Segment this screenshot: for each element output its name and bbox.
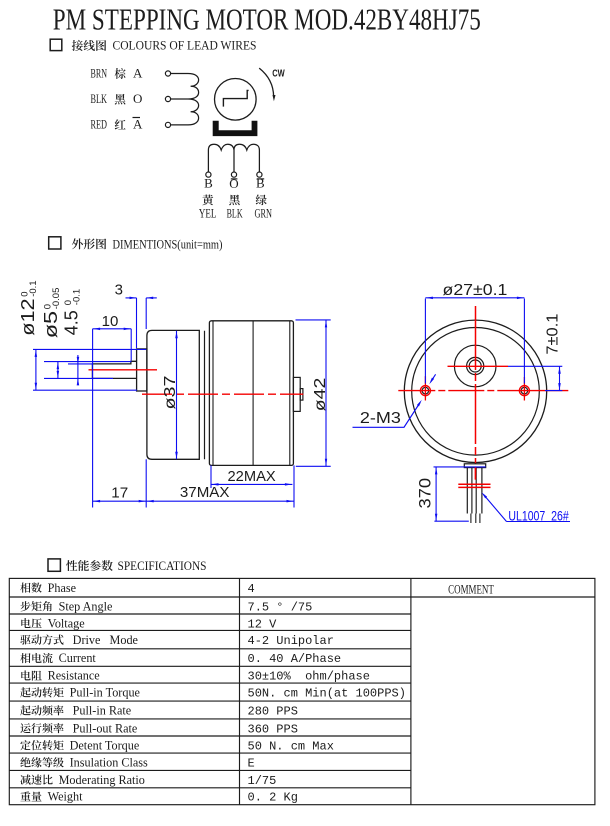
svg-text:SPECIFICATIONS: SPECIFICATIONS bbox=[118, 558, 207, 573]
dim 10: long extension line left (shared with 17) bbox=[92, 329, 94, 508]
terminal Abar bbox=[165, 122, 170, 127]
label lead Abar RED bbox=[91, 117, 144, 132]
label lead A BRN bbox=[91, 66, 144, 81]
section checkbox 2 bbox=[49, 237, 61, 249]
svg-text:50N. cm Min(at 100PPS): 50N. cm Min(at 100PPS) bbox=[248, 687, 406, 701]
dim phi27: extension lines bbox=[425, 299, 524, 384]
svg-text:ø5: ø5 bbox=[41, 311, 61, 338]
table row: current bbox=[20, 651, 341, 666]
dim 4.5: dimension line with outside arrows bbox=[77, 355, 80, 385]
dim 37MAX: extension lines bbox=[146, 459, 294, 507]
svg-text:30±10% ohm/phase: 30±10% ohm/phase bbox=[248, 670, 370, 684]
svg-text:360 PPS: 360 PPS bbox=[248, 722, 298, 736]
label lead O BLK bbox=[91, 91, 143, 106]
dim 17: dimension line with arrows bbox=[93, 500, 147, 503]
coil winding phase B (horizontal) bbox=[208, 144, 259, 172]
rotor step symbol bbox=[223, 90, 248, 106]
svg-text:Pull-out Rate: Pull-out Rate bbox=[70, 721, 138, 735]
svg-text:E: E bbox=[248, 757, 255, 771]
dim phi5: dimension line with arrows bbox=[57, 362, 60, 379]
table row: detent torque bbox=[20, 738, 334, 753]
side view: front boss bbox=[137, 349, 147, 391]
side view: gearbox body (dia 37) bbox=[147, 330, 199, 459]
section title: wiring diagram bbox=[72, 38, 257, 53]
table row: phase bbox=[20, 581, 254, 596]
front view: left mounting hole bbox=[422, 387, 429, 394]
centerline: right hole vertical (red) bbox=[523, 377, 525, 401]
dim phi42: dimension line with arrows bbox=[325, 320, 327, 466]
svg-text:4.5: 4.5 bbox=[62, 310, 82, 335]
svg-text:GRN: GRN bbox=[255, 205, 273, 220]
leader 2-M3 bbox=[353, 374, 436, 427]
centerline: holes horizontal (red dashed) bbox=[398, 390, 568, 392]
svg-text:B: B bbox=[204, 175, 213, 190]
svg-text:2-M3: 2-M3 bbox=[360, 410, 401, 427]
dim 4.5: label with tolerance bbox=[62, 289, 83, 335]
dim 22MAX: extension line bbox=[210, 465, 212, 488]
side view: terminal tab bbox=[293, 377, 300, 411]
dim phi27: dimension line with arrows bbox=[425, 297, 524, 300]
terminal B bbox=[206, 172, 211, 177]
svg-text:RED: RED bbox=[91, 117, 108, 132]
side view: body rear seam bbox=[289, 321, 291, 466]
dim 370: extension lines bbox=[434, 467, 486, 521]
front view: inner circle (dia 37) bbox=[412, 328, 540, 456]
side view: body front seam bbox=[212, 321, 214, 466]
svg-text:BLK: BLK bbox=[227, 205, 243, 220]
svg-text:A: A bbox=[133, 117, 143, 132]
svg-text:BRN: BRN bbox=[91, 66, 108, 81]
CW rotation arrow bbox=[259, 68, 275, 101]
svg-text:4: 4 bbox=[248, 582, 255, 596]
svg-text:ø12: ø12 bbox=[18, 298, 38, 335]
svg-text:Current: Current bbox=[59, 651, 97, 665]
svg-text:A: A bbox=[133, 66, 143, 81]
front view: shaft inner circle bbox=[469, 360, 481, 372]
table row: weight bbox=[20, 790, 297, 805]
front view: right mounting hole bbox=[521, 387, 528, 394]
terminal O2 bbox=[231, 172, 236, 177]
svg-text:7±0.1: 7±0.1 bbox=[545, 313, 562, 354]
dim 7: extension lines bbox=[508, 366, 562, 390]
svg-text:22MAX: 22MAX bbox=[228, 468, 276, 485]
table row: pull-in torque bbox=[20, 686, 406, 701]
svg-text:Weight: Weight bbox=[48, 790, 84, 804]
lead wire ends bbox=[471, 514, 480, 524]
label O bbox=[229, 176, 238, 191]
svg-text:-0.1: -0.1 bbox=[72, 289, 83, 305]
svg-text:ø27±0.1: ø27±0.1 bbox=[443, 282, 508, 299]
svg-text:280 PPS: 280 PPS bbox=[248, 705, 298, 719]
table row: resistance bbox=[21, 669, 370, 684]
side view: motor body (dia 42) bbox=[209, 321, 293, 466]
lead wires cap bbox=[464, 464, 485, 468]
table row: pull-in rate bbox=[20, 704, 298, 719]
centerline: shaft horizontal (red) bbox=[448, 365, 509, 367]
svg-text:0. 2 Kg: 0. 2 Kg bbox=[248, 791, 298, 805]
dim 370: dimension line with arrows bbox=[435, 467, 438, 521]
svg-text:PM STEPPING MOTOR MOD.42BY48HJ: PM STEPPING MOTOR MOD.42BY48HJ75 bbox=[53, 2, 481, 37]
svg-text:Detent Torque: Detent Torque bbox=[70, 738, 140, 752]
svg-text:10: 10 bbox=[102, 313, 119, 330]
svg-text:50 N. cm Max: 50 N. cm Max bbox=[248, 739, 334, 753]
svg-text:4-2 Unipolar: 4-2 Unipolar bbox=[248, 634, 334, 648]
side view: body mid seam bbox=[252, 321, 254, 466]
dim phi37: dimension line with arrows bbox=[175, 331, 178, 460]
svg-text:Voltage: Voltage bbox=[48, 616, 85, 630]
dim 10: extension line right bbox=[130, 329, 132, 361]
svg-text:Phase: Phase bbox=[48, 581, 76, 595]
svg-text:ø42: ø42 bbox=[312, 378, 329, 412]
leader UL1007 bbox=[482, 492, 571, 521]
label black bbox=[229, 195, 240, 206]
dim phi5: label with tolerance bbox=[41, 288, 62, 339]
dim 37MAX: dimension line with arrows bbox=[146, 500, 294, 503]
stator bracket (thick U) bbox=[213, 121, 258, 136]
dim 3: dimension line with outside arrows bbox=[126, 297, 157, 300]
front view: shaft outer circle bbox=[467, 357, 484, 374]
side view: shaft outline bbox=[92, 361, 136, 378]
svg-text:1/75: 1/75 bbox=[248, 774, 277, 788]
front view: outer circle (dia 42) bbox=[404, 320, 546, 462]
front view: right hole red ring bbox=[519, 386, 529, 396]
svg-text:Pull-in Torque: Pull-in Torque bbox=[70, 686, 140, 700]
front view: left hole red ring bbox=[420, 386, 430, 396]
terminal A bbox=[165, 71, 170, 76]
side view: terminal tab nub bbox=[300, 389, 303, 401]
svg-text:Step Angle: Step Angle bbox=[59, 599, 113, 613]
svg-text:Insulation Class: Insulation Class bbox=[70, 756, 148, 770]
svg-text:CW: CW bbox=[272, 69, 285, 80]
svg-text:COMMENT: COMMENT bbox=[448, 582, 494, 596]
svg-text:Resistance: Resistance bbox=[48, 669, 100, 683]
dim phi5: extension lines bbox=[44, 362, 131, 379]
table row: insulation class bbox=[20, 756, 254, 771]
dim 4.5: extension line bbox=[68, 363, 92, 365]
coil winding phase A (vertical) bbox=[171, 74, 199, 125]
svg-text:12 V: 12 V bbox=[248, 617, 278, 631]
svg-text:COLOURS OF LEAD WIRES: COLOURS OF LEAD WIRES bbox=[113, 38, 257, 53]
svg-text:Drive Mode: Drive Mode bbox=[70, 633, 138, 647]
table row: moderating ratio bbox=[20, 773, 276, 788]
front view: shaft boss circle bbox=[454, 345, 496, 387]
svg-text:17: 17 bbox=[111, 485, 128, 502]
section checkbox 1 bbox=[50, 39, 62, 50]
dim 10: dimension line with arrows bbox=[93, 328, 132, 331]
dim phi12: label with tolerance bbox=[18, 280, 39, 335]
svg-text:3: 3 bbox=[115, 282, 123, 299]
svg-text:-0.05: -0.05 bbox=[51, 288, 62, 310]
svg-text:7.5 ° /75: 7.5 ° /75 bbox=[248, 600, 313, 614]
svg-text:-0.1: -0.1 bbox=[28, 280, 39, 296]
side view: gearbox rear plate line bbox=[204, 331, 206, 460]
label yellow bbox=[202, 194, 213, 205]
lead wires bundle bbox=[467, 468, 482, 514]
label green bbox=[256, 194, 267, 205]
svg-text:DIMENTIONS(unit=mm): DIMENTIONS(unit=mm) bbox=[113, 236, 223, 251]
spec table frame bbox=[9, 578, 595, 804]
svg-text:B: B bbox=[256, 175, 265, 190]
table row: voltage bbox=[21, 616, 277, 631]
svg-text:370: 370 bbox=[416, 478, 435, 509]
svg-text:O: O bbox=[229, 176, 238, 191]
wire tie marks (red) bbox=[458, 484, 490, 487]
dim 7: dimension line with arrows bbox=[558, 366, 561, 390]
svg-text:ø37: ø37 bbox=[162, 375, 179, 409]
svg-text:Pull-in Rate: Pull-in Rate bbox=[70, 704, 132, 718]
label Bbar bbox=[256, 175, 265, 190]
dim 3: extension lines bbox=[137, 298, 147, 348]
svg-text:YEL: YEL bbox=[199, 205, 217, 220]
svg-text:0. 40 A/Phase: 0. 40 A/Phase bbox=[248, 652, 342, 666]
dim phi12: extension lines bbox=[33, 349, 146, 390]
centerline continuation over wires (red) bbox=[475, 468, 477, 480]
section title: dimensions bbox=[72, 236, 223, 251]
svg-text:Moderating Ratio: Moderating Ratio bbox=[59, 773, 145, 787]
centerline: shaft axis (red) bbox=[89, 369, 158, 371]
centerline: left hole vertical (red) bbox=[424, 376, 426, 400]
table row: pull-out rate bbox=[20, 721, 297, 736]
dim phi12: dimension line with arrows bbox=[35, 349, 38, 390]
centerline: vertical (red) bbox=[475, 306, 477, 480]
motor rotor circle bbox=[215, 79, 257, 121]
svg-text:O: O bbox=[133, 91, 142, 106]
table row: drive mode bbox=[20, 633, 334, 648]
dim phi42: extension lines bbox=[296, 320, 331, 466]
section checkbox 3 bbox=[48, 559, 60, 571]
svg-text:BLK: BLK bbox=[91, 91, 108, 106]
table row: step angle bbox=[20, 599, 312, 614]
terminal Bbar bbox=[257, 172, 262, 177]
centerline: body axis (red dashed) bbox=[142, 393, 303, 395]
section title: specifications bbox=[66, 558, 206, 573]
dim 22MAX: dimension line with arrows bbox=[211, 483, 292, 486]
terminal O bbox=[165, 96, 170, 101]
svg-text:37MAX: 37MAX bbox=[180, 484, 230, 501]
